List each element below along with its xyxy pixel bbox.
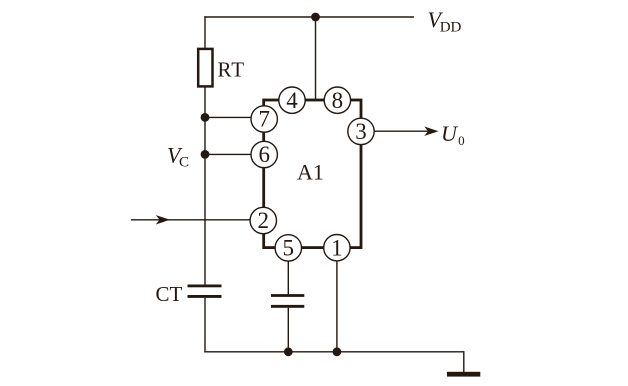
wire to pin 6	[205, 153, 253, 155]
svg-text:3: 3	[355, 119, 367, 144]
wire RT branch top	[204, 16, 206, 50]
pin 4	[279, 87, 305, 113]
svg-text:8: 8	[332, 88, 344, 113]
svg-text:6: 6	[258, 142, 270, 167]
svg-text:4: 4	[286, 88, 298, 113]
wire pin5 to C2	[287, 260, 289, 296]
pin 6	[251, 141, 277, 167]
node junction pin1 rail	[333, 347, 342, 356]
svg-text:DD: DD	[440, 20, 462, 36]
node junction top rail	[311, 13, 320, 22]
wire bottom rail	[204, 351, 464, 353]
wire RT bottom to CT top	[204, 86, 206, 285]
node junction pin7 wire	[201, 113, 210, 122]
wire VDD drop to chip	[315, 17, 317, 100]
svg-text:RT: RT	[218, 58, 246, 82]
svg-text:A1: A1	[297, 159, 324, 184]
input arrowhead	[156, 215, 170, 224]
op-amp A1 chip body	[264, 100, 361, 248]
resistor RT	[198, 49, 212, 87]
svg-text:5: 5	[283, 236, 295, 261]
pin 5	[275, 235, 301, 261]
svg-text:U: U	[441, 121, 459, 146]
svg-text:CT: CT	[156, 282, 183, 306]
svg-text:0: 0	[458, 133, 465, 148]
pin 8	[324, 87, 350, 113]
pin 2	[250, 207, 276, 233]
capacitor C2 plates	[271, 294, 304, 308]
wire CT bottom	[204, 298, 206, 353]
wire input line	[131, 219, 252, 221]
node junction C2 rail	[284, 347, 293, 356]
pin 1	[324, 235, 350, 261]
pin 7	[251, 106, 277, 132]
svg-text:1: 1	[331, 235, 343, 260]
svg-text:2: 2	[258, 208, 270, 233]
wire to pin 7	[205, 116, 253, 118]
pin 3	[348, 118, 374, 144]
svg-text:7: 7	[258, 107, 270, 132]
wire C2 bottom to rail	[287, 308, 289, 352]
wire top rail	[204, 16, 414, 18]
wire pin1 to rail	[336, 260, 338, 352]
wire output line	[374, 130, 437, 132]
capacitor CT plates	[188, 285, 222, 298]
ground	[447, 372, 480, 377]
svg-text:C: C	[179, 155, 189, 171]
wire ground stub	[463, 351, 465, 372]
node VC junction	[201, 150, 210, 159]
output arrowhead	[424, 127, 438, 136]
